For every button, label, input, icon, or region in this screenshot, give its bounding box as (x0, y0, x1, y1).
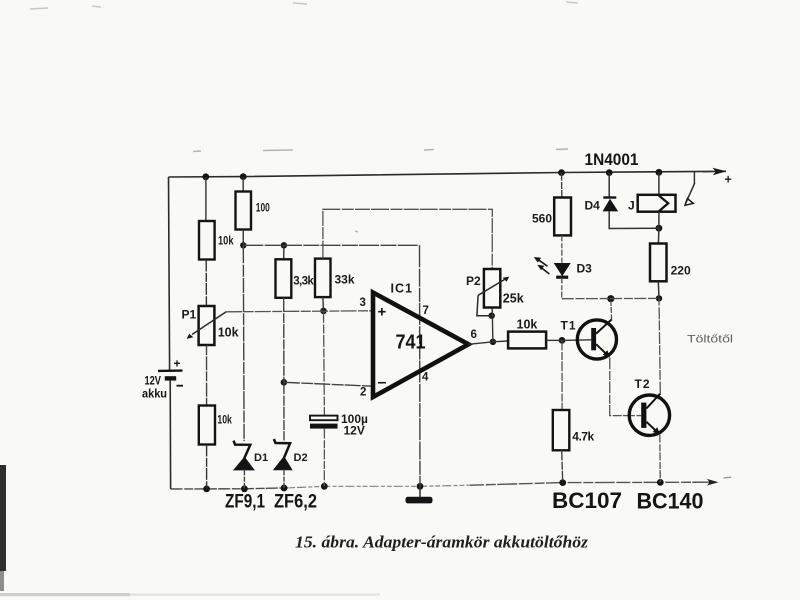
resistor 220 (650, 228, 691, 298)
svg-text:3: 3 (360, 297, 366, 309)
wire T1 emitter down and to T2 base (610, 357, 642, 415)
node dot: top rail / 100 branch (240, 173, 247, 180)
svg-text:+: + (725, 173, 732, 187)
resistor 4.7k (553, 410, 595, 483)
svg-text:BC107: BC107 (552, 488, 622, 513)
svg-text:6: 6 (471, 329, 477, 341)
node dot: bottom rail / capacitor (321, 483, 328, 490)
node dot: bottom rail / D1 (241, 485, 248, 492)
node dot: top rail / 10k branch (202, 173, 209, 180)
svg-text:25k: 25k (503, 292, 524, 306)
resistor 10k (output, horizontal) (493, 318, 562, 349)
svg-text:10k: 10k (517, 318, 538, 332)
svg-text:1N4001: 1N4001 (585, 151, 639, 169)
transistor T1 BC107 (561, 319, 617, 360)
wire pin3 node down to capacitor (323, 311, 326, 415)
zener diode D1 ZF9,1 (234, 441, 269, 489)
wire 33k top feedback to P2 top (323, 209, 492, 269)
svg-text:ZF9,1: ZF9,1 (225, 491, 265, 513)
node dot: P2 wiper tie (489, 313, 495, 319)
relay coil J (628, 172, 676, 228)
node dot: 100 bottom node (240, 242, 246, 248)
arrowhead at right end of bottom rail (707, 479, 719, 486)
svg-text:12V: 12V (344, 424, 365, 438)
LED D3 (534, 257, 592, 299)
wire op-amp output to node (469, 342, 493, 345)
resistor 560 (532, 173, 571, 263)
zener diode D2 ZF6,2 (274, 439, 308, 488)
svg-text:–: – (378, 374, 387, 391)
svg-text:220: 220 (671, 264, 691, 278)
wire left rail (battery - to bottom rail) (169, 379, 171, 490)
svg-text:+: + (378, 304, 387, 321)
svg-text:560: 560 (532, 212, 552, 226)
svg-text:BC140: BC140 (637, 489, 704, 514)
wire pin2 node down to D2 (283, 382, 285, 440)
svg-text:33k: 33k (335, 273, 355, 287)
svg-text:P1: P1 (182, 308, 197, 322)
svg-text:10k: 10k (217, 413, 232, 427)
wire left rail (top rail to battery +) (169, 177, 170, 370)
wire node row y=245 to op-amp pin7 column (243, 244, 419, 246)
resistor 100 (236, 177, 270, 245)
ground symbol (406, 486, 433, 503)
node dot: top rail / relay branch (656, 169, 663, 176)
potentiometer P1 10k (182, 306, 239, 345)
svg-text:741: 741 (396, 331, 426, 354)
svg-text:T2: T2 (635, 377, 651, 391)
node dot: pin2 node under 3,3k (281, 379, 288, 386)
svg-text:2: 2 (360, 387, 366, 399)
svg-text:P2: P2 (466, 274, 481, 288)
scan artifact: black bar bottom-left (0, 465, 6, 571)
svg-text:4: 4 (422, 372, 429, 384)
op-amp U1 741 triangle (360, 282, 477, 399)
svg-text:12V: 12V (145, 376, 162, 388)
svg-text:D4: D4 (585, 199, 601, 213)
wire T1 collector up to node (610, 299, 613, 320)
svg-text:100: 100 (256, 203, 270, 215)
wire output node up to P2 bottom (491, 308, 494, 342)
wire bottom rail (171, 488, 290, 489)
svg-text:3,3k: 3,3k (293, 276, 314, 288)
scan artifact: faint specks top (30, 2, 578, 9)
relay contact switch (top right) (685, 172, 695, 206)
resistor 3,3k (276, 245, 315, 382)
wire T2 emitter down to bottom rail (659, 435, 662, 483)
node dot: bottom rail / 4.7k (559, 479, 566, 486)
wire T1 base node to base (562, 339, 591, 342)
node dot: bottom rail / T2 emitter (657, 479, 664, 486)
svg-text:ZF6,2: ZF6,2 (274, 491, 317, 513)
node dot: relay/D4 bottom node (656, 225, 663, 232)
battery 12V akku (142, 357, 183, 401)
node dot: 220 bottom / T2 collector node (656, 295, 662, 301)
svg-text:10k: 10k (218, 326, 239, 340)
svg-text:D3: D3 (577, 262, 593, 276)
node dot: bottom rail / D2 (281, 485, 288, 492)
wire T1 base node down to 4.7k (561, 340, 563, 410)
diode D4 1N4001 (585, 173, 659, 229)
wire D3 to T1 collector node row (562, 297, 659, 299)
node dot: pin3 node under 33k (320, 308, 327, 315)
resistor 33k (315, 259, 355, 311)
resistor 10k (upper left) (199, 177, 234, 306)
wire pin2 node to op-amp inverting input (284, 382, 373, 386)
potentiometer P2 25k (466, 269, 524, 316)
capacitor 100u 12V electrolytic (310, 412, 368, 486)
svg-text:+: + (174, 357, 181, 371)
node dot: op-amp output node (490, 339, 496, 345)
wire P1 wiper to pin 3 (226, 311, 373, 312)
svg-text:akku: akku (142, 389, 167, 401)
svg-text:7: 7 (423, 305, 429, 317)
svg-text:4.7k: 4.7k (572, 430, 594, 444)
wire T2 collector up to 220 node (659, 298, 660, 393)
transistor T2 BC140 (629, 377, 669, 435)
node dot: T1 collector node (607, 295, 614, 302)
node dot: 3,3k top node (281, 242, 287, 248)
node dot: bottom rail / 10k branch (203, 486, 210, 493)
node dot: bottom rail / ground (417, 483, 424, 490)
svg-text:J: J (628, 199, 635, 213)
svg-text:10k: 10k (218, 234, 234, 248)
svg-text:D2: D2 (294, 452, 308, 464)
svg-text:IC1: IC1 (391, 282, 413, 296)
wire pin7/pin4 vertical column (419, 245, 422, 486)
svg-text:D1: D1 (254, 452, 268, 464)
svg-text:Töltőtől: Töltőtől (687, 334, 733, 346)
svg-text:15. ábra. Adapter-áramkör akku: 15. ábra. Adapter-áramkör akkutöltőhöz (295, 533, 589, 552)
resistor 10k (lower left) (199, 406, 232, 489)
node dot: T1 base node (559, 337, 566, 344)
arrowhead + output (top right) (703, 168, 732, 187)
svg-text:T1: T1 (561, 319, 577, 333)
node dot: top rail / 560 branch (558, 169, 565, 176)
wire top rail (169, 171, 727, 177)
wire 100 bottom node to D1 (vertical) (242, 245, 245, 441)
node dot: top rail / D4 branch (606, 169, 613, 176)
wire P1 bottom to lower 10k (206, 345, 208, 406)
